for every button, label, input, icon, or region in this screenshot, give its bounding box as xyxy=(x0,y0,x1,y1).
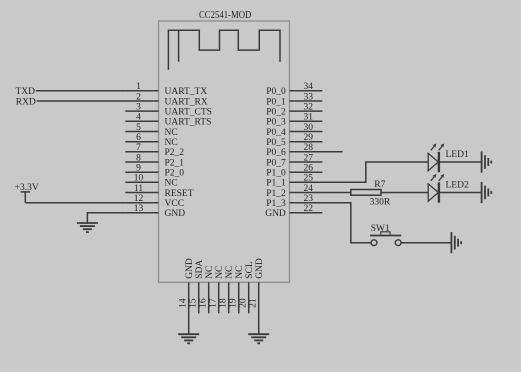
svg-text:SCL: SCL xyxy=(245,261,255,279)
svg-text:17: 17 xyxy=(209,298,219,308)
svg-text:R7: R7 xyxy=(374,180,385,190)
svg-text:CC2541-MOD: CC2541-MOD xyxy=(199,10,251,21)
svg-text:15: 15 xyxy=(189,298,199,308)
svg-text:18: 18 xyxy=(219,298,229,308)
svg-text:GND: GND xyxy=(165,209,186,219)
svg-text:NC: NC xyxy=(165,179,178,189)
svg-text:P0_7: P0_7 xyxy=(266,158,286,168)
LED LED1 xyxy=(428,143,469,172)
pin 16 NC (bottom) xyxy=(199,266,215,314)
svg-text:SDA: SDA xyxy=(195,260,205,279)
wire +3.3V to pin 12 VCC xyxy=(25,202,125,204)
svg-text:P0_6: P0_6 xyxy=(266,148,286,158)
svg-text:NC: NC xyxy=(165,138,178,148)
svg-text:RXD: RXD xyxy=(16,97,36,107)
svg-text:26: 26 xyxy=(304,164,314,174)
svg-text:P1_2: P1_2 xyxy=(266,189,286,199)
svg-text:31: 31 xyxy=(304,113,314,123)
ground symbol (LED1) xyxy=(482,151,492,172)
svg-text:SW1: SW1 xyxy=(371,224,390,234)
svg-text:23: 23 xyxy=(304,194,314,204)
svg-text:3: 3 xyxy=(136,103,141,113)
svg-text:NC: NC xyxy=(225,266,235,279)
pin 4 UART_RTS (left) xyxy=(125,113,211,128)
svg-text:P2_1: P2_1 xyxy=(165,158,185,168)
pin 15 SDA (bottom) xyxy=(189,260,205,314)
svg-text:1: 1 xyxy=(136,82,141,92)
antenna meander trace xyxy=(168,30,280,69)
svg-text:24: 24 xyxy=(304,184,314,194)
pin 31 P0_3 (right) xyxy=(266,113,322,128)
ground symbol (SW1) xyxy=(451,232,461,253)
module U1 CC2541-MOD body xyxy=(159,21,290,282)
svg-text:UART_TX: UART_TX xyxy=(165,87,208,97)
wire LED2 cathode to ground xyxy=(439,192,481,194)
pin 1 UART_TX (left) xyxy=(125,82,207,97)
wire P1_1 (pin 25) to LED1 anode xyxy=(322,162,428,182)
node RXD xyxy=(16,97,36,107)
pin 3 UART_CTS (left) xyxy=(125,103,212,118)
svg-text:7: 7 xyxy=(136,143,141,153)
pin 20 SCL (bottom) xyxy=(239,261,255,313)
pin 28 P0_6 (right) xyxy=(266,143,322,158)
svg-text:RESET: RESET xyxy=(165,189,194,199)
pin 17 NC (bottom) xyxy=(209,266,225,314)
wire pin 13 GND to ground xyxy=(87,213,125,223)
wire SW1 to ground xyxy=(401,242,451,244)
svg-text:4: 4 xyxy=(136,113,141,123)
svg-text:VCC: VCC xyxy=(165,199,185,209)
pin 26 P1_0 (right) xyxy=(266,164,322,179)
svg-text:P2_2: P2_2 xyxy=(165,148,185,158)
svg-text:P1_1: P1_1 xyxy=(266,179,286,189)
wire TXD to pin 1 xyxy=(36,90,126,92)
svg-text:NC: NC xyxy=(165,128,178,138)
svg-text:330R: 330R xyxy=(370,198,391,208)
svg-text:16: 16 xyxy=(199,298,209,308)
svg-text:5: 5 xyxy=(136,123,141,133)
pin 32 P0_2 (right) xyxy=(266,103,322,118)
svg-text:10: 10 xyxy=(134,174,144,184)
pin 14 GND (bottom) xyxy=(179,258,195,334)
pushbutton switch SW1 xyxy=(370,224,401,246)
pin 13 GND (left) xyxy=(125,204,185,219)
svg-text:12: 12 xyxy=(134,194,144,204)
svg-text:GND: GND xyxy=(185,258,195,279)
svg-text:P1_3: P1_3 xyxy=(266,199,286,209)
pin 30 P0_4 (right) xyxy=(266,123,322,138)
svg-text:GND: GND xyxy=(265,209,286,219)
svg-text:20: 20 xyxy=(239,298,249,308)
svg-text:P0_0: P0_0 xyxy=(266,87,286,97)
wire P0_6 stub extension xyxy=(322,151,342,153)
svg-text:LED1: LED1 xyxy=(446,150,469,160)
pin 18 NC (bottom) xyxy=(219,266,235,314)
svg-text:NC: NC xyxy=(215,266,225,279)
pin 33 P0_1 (right) xyxy=(266,92,322,107)
svg-text:UART_RTS: UART_RTS xyxy=(165,118,212,128)
svg-text:UART_RX: UART_RX xyxy=(165,97,208,107)
power +3.3V symbol xyxy=(15,183,39,203)
pin 34 P0_0 (right) xyxy=(266,82,322,97)
svg-text:29: 29 xyxy=(304,133,314,143)
svg-text:14: 14 xyxy=(179,298,189,308)
svg-text:19: 19 xyxy=(229,298,239,308)
pin 9 P2_0 (left) xyxy=(125,164,184,179)
svg-text:P0_1: P0_1 xyxy=(266,97,286,107)
pin 10 NC (left) xyxy=(125,174,177,189)
wire P1_3 (pin 23) to SW1 xyxy=(322,203,371,243)
pin 21 GND (bottom) xyxy=(249,258,265,334)
svg-text:6: 6 xyxy=(136,133,141,143)
label CC2541-MOD xyxy=(199,10,251,21)
svg-text:21: 21 xyxy=(249,298,259,308)
pin 29 P0_5 (right) xyxy=(266,133,322,148)
pin 27 P0_7 (right) xyxy=(266,153,322,168)
ground symbol (LED2) xyxy=(482,182,492,203)
pin 8 P2_1 (left) xyxy=(125,153,184,168)
svg-text:P0_2: P0_2 xyxy=(266,108,286,118)
svg-text:2: 2 xyxy=(136,92,141,102)
svg-text:GND: GND xyxy=(255,258,265,279)
node TXD xyxy=(15,87,35,97)
svg-text:34: 34 xyxy=(304,82,314,92)
svg-text:P2_0: P2_0 xyxy=(165,169,185,179)
wire RXD to pin 2 xyxy=(37,100,126,102)
ground symbol (pin 13) xyxy=(77,223,98,232)
resistor R7 330R xyxy=(351,180,391,208)
svg-text:P1_0: P1_0 xyxy=(266,169,286,179)
svg-text:13: 13 xyxy=(134,204,144,214)
svg-text:32: 32 xyxy=(304,103,314,113)
pin 25 P1_1 (right) xyxy=(266,174,322,189)
pin 6 NC (left) xyxy=(125,133,177,148)
pin 2 UART_RX (left) xyxy=(125,92,208,107)
svg-text:P0_3: P0_3 xyxy=(266,118,286,128)
svg-text:TXD: TXD xyxy=(15,87,35,97)
svg-text:NC: NC xyxy=(205,266,215,279)
wire P1_2 (pin 24) to R7 xyxy=(322,192,350,194)
pin 5 NC (left) xyxy=(125,123,177,138)
svg-text:NC: NC xyxy=(235,266,245,279)
pin 23 P1_3 (right) xyxy=(266,194,322,209)
pin 19 NC (bottom) xyxy=(229,266,245,314)
svg-text:11: 11 xyxy=(134,184,143,194)
pin 22 GND (right) xyxy=(265,204,322,219)
pin 24 P1_2 (right) xyxy=(266,184,322,199)
svg-text:33: 33 xyxy=(304,92,314,102)
wire LED1 cathode to ground xyxy=(439,161,481,163)
pin 12 VCC (left) xyxy=(125,194,184,209)
svg-text:28: 28 xyxy=(304,143,314,153)
svg-text:9: 9 xyxy=(136,164,141,174)
svg-text:P0_4: P0_4 xyxy=(266,128,286,138)
ground symbol (bottom pin at x=188.7) xyxy=(178,334,199,343)
svg-text:8: 8 xyxy=(136,153,141,163)
svg-text:25: 25 xyxy=(304,174,314,184)
pin 11 RESET (left) xyxy=(125,184,193,199)
svg-text:LED2: LED2 xyxy=(446,181,469,191)
svg-text:22: 22 xyxy=(304,204,314,214)
LED LED2 xyxy=(428,174,469,203)
svg-text:27: 27 xyxy=(304,153,314,163)
svg-text:30: 30 xyxy=(304,123,314,133)
ground symbol (bottom pin at x=258.7) xyxy=(248,334,269,343)
wire R7 to LED2 anode xyxy=(381,192,428,194)
pin 7 P2_2 (left) xyxy=(125,143,184,158)
svg-text:UART_CTS: UART_CTS xyxy=(165,108,212,118)
svg-text:P0_5: P0_5 xyxy=(266,138,286,148)
